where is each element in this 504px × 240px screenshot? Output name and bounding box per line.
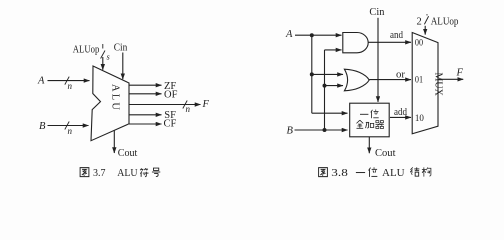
svg-text:2: 2 [417,17,422,28]
svg-text:B: B [39,121,46,132]
svg-text:n: n [68,126,73,136]
svg-text:A: A [285,29,293,40]
svg-text:s: s [107,53,110,62]
svg-text:n: n [186,104,191,114]
svg-text:A: A [37,76,45,87]
svg-text:ALU: ALU [117,167,137,179]
svg-text:3.7: 3.7 [93,167,106,179]
svg-text:F: F [456,68,464,79]
svg-text:OF: OF [164,90,178,101]
svg-text:ALUop: ALUop [73,45,100,56]
svg-text:10: 10 [415,114,424,124]
svg-text:add: add [394,107,408,118]
svg-text:Cin: Cin [114,42,128,53]
svg-text:Cin: Cin [369,7,385,18]
svg-text:F: F [202,99,210,110]
svg-text:3.8: 3.8 [331,167,348,179]
svg-text:and: and [390,30,404,41]
svg-text:Cout: Cout [118,148,138,159]
svg-text:n: n [68,81,73,91]
svg-text:00: 00 [415,38,424,48]
svg-text:01: 01 [415,75,424,85]
svg-text:CF: CF [164,119,177,130]
svg-text:ALUop: ALUop [431,17,459,28]
svg-text:MUX: MUX [432,73,443,97]
svg-text:Cout: Cout [375,148,396,159]
svg-text:or: or [396,70,406,81]
svg-text:B: B [287,126,294,137]
svg-text:ALU: ALU [109,84,120,112]
svg-text:ALU: ALU [382,167,405,179]
